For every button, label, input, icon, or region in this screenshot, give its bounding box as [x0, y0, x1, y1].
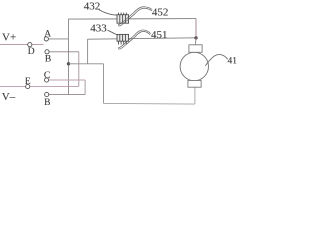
- motor bottom terminal rect: [188, 81, 201, 88]
- wire from terminal B: [49, 51, 79, 53]
- svg-text:V+: V+: [2, 32, 16, 44]
- wire bottom horizontal: [104, 102, 195, 105]
- terminal circle A: [44, 37, 48, 41]
- svg-text:C: C: [44, 71, 50, 81]
- wire vertical x=78.8 B to V- rail: [78, 52, 80, 87]
- leader 433: [108, 30, 119, 35]
- svg-text:B: B: [45, 55, 51, 65]
- wire from terminal A: [48, 38, 68, 40]
- terminal circle D: [28, 43, 32, 47]
- wire w1 right corner down: [195, 19, 197, 38]
- terminal circle C: [45, 78, 49, 82]
- wire vertical x=103.5 down: [103, 64, 105, 104]
- motor 41 circle: [180, 52, 208, 80]
- terminal circle E: [26, 84, 30, 88]
- leader 41: [205, 54, 228, 65]
- wire w1 top horizontal: [69, 18, 197, 21]
- wire horizontal mid y=63.8: [69, 63, 104, 65]
- node junction dot right: [194, 36, 197, 39]
- svg-text:451: 451: [151, 29, 168, 41]
- V- rail: [0, 85, 79, 87]
- wire from terminal C: [49, 79, 85, 81]
- brush 433 box: [117, 34, 129, 44]
- wire w2 horizontal: [88, 38, 196, 39]
- wire up to motor bottom: [194, 87, 196, 104]
- V+ rail: [0, 44, 44, 46]
- svg-text:B: B: [44, 98, 50, 108]
- svg-text:433: 433: [90, 22, 107, 34]
- svg-text:V–: V–: [2, 91, 16, 103]
- leader 451 pigtail (double stroke): [119, 30, 151, 47]
- svg-text:D: D: [28, 47, 35, 57]
- terminal circle B: [45, 50, 49, 54]
- svg-text:41: 41: [228, 56, 238, 66]
- svg-text:E: E: [25, 77, 31, 87]
- leader 432: [99, 10, 118, 15]
- wire vertical x=68.5: [68, 19, 70, 95]
- terminal circle B2: [45, 92, 49, 96]
- wire vertical x=85.1 C to B2 line: [84, 80, 86, 95]
- svg-text:A: A: [44, 30, 51, 40]
- svg-text:452: 452: [152, 7, 169, 19]
- leader 452 pigtail (double stroke): [119, 7, 153, 25]
- brush 432 box: [117, 13, 129, 24]
- wire drop from node to motor top: [194, 38, 197, 45]
- svg-text:432: 432: [84, 0, 101, 12]
- wire w2 left descender: [87, 39, 89, 64]
- wire from terminal B2: [49, 94, 85, 96]
- motor top terminal rect: [189, 45, 202, 53]
- node junction dot left: [67, 62, 70, 65]
